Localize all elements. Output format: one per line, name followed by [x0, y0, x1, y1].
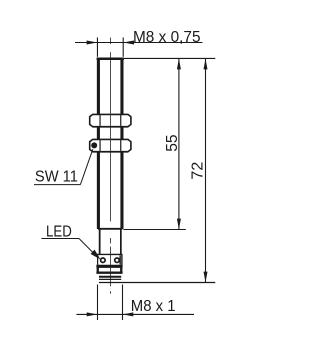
barrel top edge (sensing face) [97, 58, 124, 61]
extension line top right (for 55 and 72) [124, 57, 215, 59]
centerline dot 2 [109, 291, 111, 294]
label LED arrowhead [91, 250, 101, 260]
svg-text:55: 55 [164, 134, 181, 151]
svg-text:72: 72 [190, 161, 207, 179]
smooth body left edge [99, 230, 101, 255]
centerline over nut 1 [109, 114, 111, 126]
LED ring top edge [97, 253, 122, 255]
collar bottom band [96, 272, 122, 274]
LED ring right side [121, 254, 123, 264]
dimension M8 x 1: right arrowhead [123, 312, 134, 316]
smooth body right edge [120, 230, 122, 255]
thread end edge [98, 228, 122, 230]
dimension M8 x 1: left arrowhead [87, 312, 98, 316]
svg-text:LED: LED [46, 224, 72, 241]
dimension 55: up arrowhead [177, 59, 181, 70]
centerline over nut 2 [109, 139, 111, 151]
M8 connector thread rib 3 + extension line (72 bottom) [99, 282, 215, 284]
label LED leader [79, 239, 98, 258]
label SW 11 underline [34, 184, 80, 186]
dimension 72: up arrowhead [204, 59, 208, 70]
dimension 72: dimension line [205, 59, 207, 283]
extension line at thread end (55 bottom) [123, 229, 185, 231]
hex nut 1 [90, 114, 131, 126]
M8 connector thread rib 2 [99, 278, 121, 280]
svg-text:M8 x 0,75: M8 x 0,75 [133, 29, 201, 46]
svg-text:M8 x 1: M8 x 1 [131, 298, 176, 315]
hex nut 2 [90, 139, 131, 151]
dimension 72: down arrowhead [204, 272, 208, 283]
collar left cap [97, 265, 99, 274]
dimension 55: down arrowhead [177, 219, 181, 230]
collar top band (ring bottom + collar top) [96, 265, 122, 268]
dimension M8 x 0,75: extension line right [122, 38, 124, 57]
dimension M8 x 1: extension line left [97, 285, 99, 321]
LED ring left side [97, 254, 99, 264]
M8 connector thread rib 1 [99, 276, 121, 278]
dimension M8 x 0,75: dimension line [75, 42, 203, 44]
LED window right [115, 258, 120, 263]
SW11 leader dot on nut 2 [91, 142, 97, 148]
centerline segment A (above barrel) [109, 38, 111, 45]
dimension M8 x 0,75: left arrowhead [87, 41, 98, 45]
centerline segment C (connector) [109, 247, 111, 287]
centerline segment B (main barrel) [109, 52, 111, 221]
LED window left [101, 258, 106, 263]
centerline dot 1 [109, 238, 111, 244]
label SW 11 leader [80, 149, 92, 184]
barrel thread left side (major+minor merged band) [97, 58, 100, 230]
dimension M8 x 0,75: extension line left [96, 38, 98, 57]
svg-text:SW 11: SW 11 [35, 168, 78, 185]
label LED underline [41, 238, 79, 240]
barrel thread right side (major+minor merged band) [120, 58, 123, 230]
LED ring facet line [119, 255, 121, 264]
dimension 55: dimension line [178, 59, 180, 230]
dimension M8 x 1: dimension line [77, 313, 195, 315]
dimension M8 x 1: extension line right [122, 285, 124, 321]
dimension M8 x 0,75: right arrowhead [123, 41, 134, 45]
collar right cap [120, 265, 122, 274]
